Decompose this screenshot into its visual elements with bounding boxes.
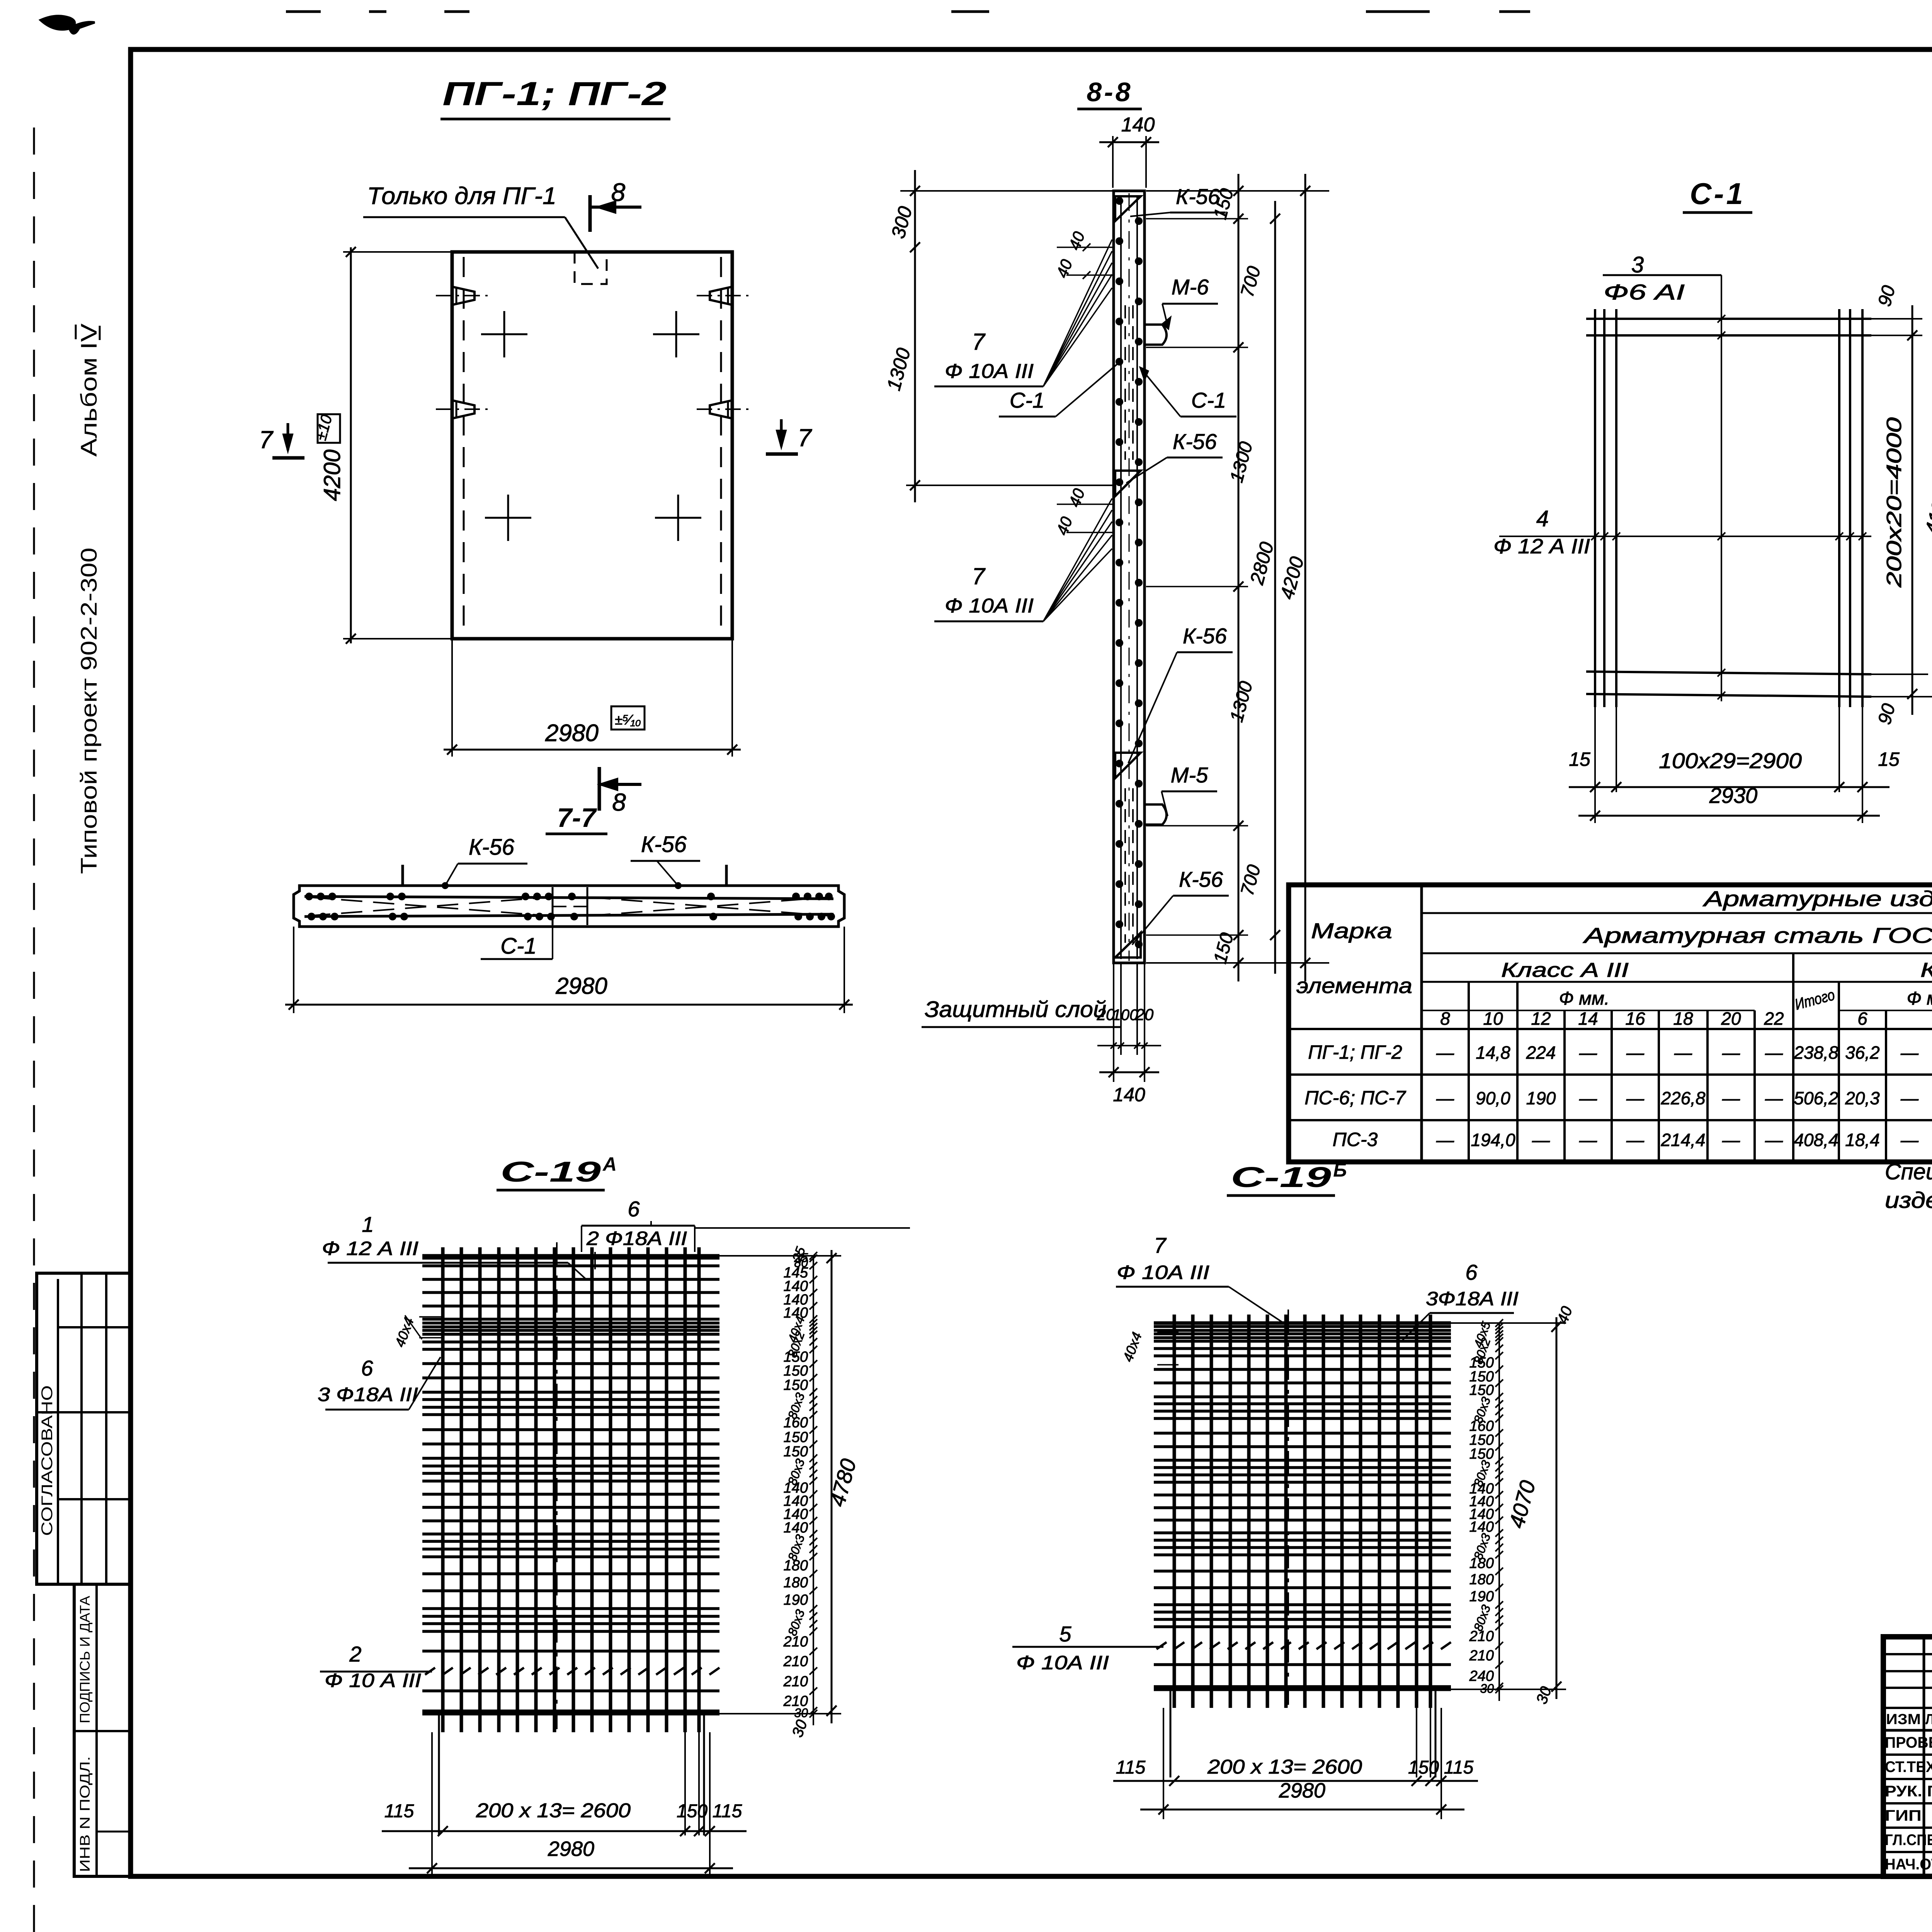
svg-text:К-56: К-56: [1179, 867, 1223, 891]
svg-text:Ф 10А III: Ф 10А III: [945, 360, 1034, 383]
8-8 embed М-6 hook: [1145, 325, 1167, 345]
svg-text:6: 6: [1465, 1260, 1478, 1284]
svg-text:210: 210: [1469, 1648, 1494, 1664]
8-8 embed dashed outline lower: [1124, 788, 1126, 943]
svg-text:Ф мм.: Ф мм.: [1559, 988, 1610, 1009]
svg-text:Ф мм,: Ф мм,: [1907, 988, 1932, 1009]
svg-text:6: 6: [628, 1197, 640, 1221]
7-7 middle cell lines: [552, 887, 554, 925]
svg-text:16: 16: [1625, 1009, 1645, 1029]
svg-text:210: 210: [783, 1673, 808, 1690]
section 7-7 panel strip: [294, 886, 844, 927]
svg-text:150: 150: [784, 1363, 808, 1379]
svg-text:1: 1: [362, 1212, 374, 1236]
stamp table СОГЛАСОВАНО: [37, 1273, 131, 1584]
svg-text:3Ф18А III: 3Ф18А III: [1426, 1288, 1519, 1310]
svg-text:А: А: [602, 1153, 617, 1175]
С-1 mesh right vertical bars: [1838, 309, 1840, 707]
svg-text:С-19: С-19: [500, 1156, 601, 1188]
svg-text:С-1: С-1: [500, 934, 536, 959]
svg-text:8: 8: [612, 788, 626, 816]
panel top notch (only for ПГ-1): [575, 252, 607, 284]
svg-text:—: —: [1626, 1043, 1645, 1063]
svg-text:ПГ-1; ПГ-2: ПГ-1; ПГ-2: [1308, 1041, 1402, 1063]
materials table body row lines: [1289, 1028, 1932, 1030]
mesh С-19А dimension ladder: [813, 1256, 814, 1725]
dim 300 left of 8-8: [900, 190, 1113, 192]
7-7 diagonal brace right bay: [589, 897, 829, 916]
svg-text:ГЛ.СПЕЦ.: ГЛ.СПЕЦ.: [1885, 1832, 1932, 1849]
svg-text:14: 14: [1578, 1009, 1598, 1029]
materials table марка элемента column: [1420, 885, 1423, 1162]
svg-text:СОГЛАСОВАНО: СОГЛАСОВАНО: [39, 1385, 56, 1536]
svg-text:—: —: [1900, 1088, 1919, 1108]
svg-text:5: 5: [1059, 1622, 1071, 1646]
svg-text:ПС-6; ПС-7: ПС-6; ПС-7: [1304, 1087, 1406, 1109]
8-8 dim 4200: [1304, 174, 1306, 981]
svg-text:100: 100: [1112, 1007, 1138, 1024]
svg-text:210: 210: [783, 1634, 808, 1650]
svg-text:22: 22: [1764, 1009, 1784, 1029]
svg-text:Защитный слой: Защитный слой: [925, 997, 1106, 1022]
title block signature rows: [1883, 1753, 1932, 1756]
svg-text:Альбом IV: Альбом IV: [77, 323, 102, 457]
svg-text:3 Ф18А III: 3 Ф18А III: [318, 1384, 418, 1405]
lifting loop top-left: [452, 287, 474, 305]
svg-text:ИЗМ: ИЗМ: [1886, 1711, 1921, 1728]
svg-text:—: —: [1579, 1043, 1597, 1063]
panel inner dashed edge left: [463, 257, 465, 634]
8-8 embed М-5 hook: [1145, 804, 1167, 825]
svg-text:15: 15: [1878, 748, 1900, 770]
section mark 8 top: [588, 195, 592, 232]
svg-text:—: —: [1436, 1088, 1454, 1108]
svg-text:18: 18: [1673, 1009, 1693, 1029]
svg-text:2: 2: [349, 1642, 361, 1666]
С-1 mesh top horizontal bars: [1586, 318, 1871, 320]
svg-text:194,0: 194,0: [1471, 1130, 1515, 1150]
svg-text:100х29=2900: 100х29=2900: [1659, 748, 1802, 773]
materials table header Арматурные изделия: [1422, 912, 1932, 914]
svg-text:238,8: 238,8: [1793, 1043, 1838, 1063]
svg-text:3: 3: [1631, 252, 1644, 277]
svg-text:—: —: [1722, 1043, 1740, 1063]
svg-text:—: —: [1436, 1130, 1454, 1150]
С-1 pos4 callout line horizontal: [1499, 536, 1871, 537]
dim 200x20=4000 right of С-1: [1912, 305, 1913, 715]
8-8 K-56 frame lower-middle: [1115, 753, 1141, 778]
svg-text:К-56: К-56: [1173, 429, 1217, 454]
svg-text:2 Ф18А III: 2 Ф18А III: [586, 1228, 687, 1249]
7-7 diagonal brace left bay: [309, 897, 549, 916]
svg-text:—: —: [1900, 1043, 1919, 1063]
svg-text:К-56: К-56: [1183, 624, 1227, 648]
svg-text:408,4: 408,4: [1794, 1130, 1838, 1150]
materials table frame: [1289, 885, 1932, 1162]
dim 2980 below panel: [451, 639, 453, 757]
svg-text:6: 6: [361, 1356, 373, 1380]
svg-text:36,2: 36,2: [1845, 1043, 1880, 1063]
svg-text:115: 115: [384, 1801, 414, 1821]
mesh С-19Б dimension ladder: [1498, 1323, 1500, 1701]
svg-text:Спецификация марок арматурных: Спецификация марок арматурных: [1885, 1159, 1932, 1184]
svg-text:±⁵⁄₁₀: ±⁵⁄₁₀: [615, 712, 641, 728]
mesh С-19А overall dim 4780: [831, 1250, 833, 1723]
dim 40 40 upper: [1057, 247, 1113, 248]
title block left columns: [1923, 1637, 1925, 1876]
8-8 dim 2800: [1274, 201, 1276, 974]
svg-text:18,4: 18,4: [1845, 1130, 1880, 1150]
svg-text:Класс А I: Класс А I: [1920, 959, 1932, 981]
svg-text:РУК. ГР.: РУК. ГР.: [1885, 1783, 1932, 1800]
svg-text:150: 150: [784, 1444, 808, 1460]
svg-text:—: —: [1722, 1130, 1740, 1150]
svg-text:200 х 13= 2600: 200 х 13= 2600: [1207, 1756, 1362, 1778]
svg-text:2930: 2930: [1709, 783, 1758, 808]
svg-text:С-1: С-1: [1191, 388, 1226, 412]
svg-text:506,2: 506,2: [1794, 1088, 1838, 1108]
svg-text:Ф6 АI: Ф6 АI: [1604, 280, 1685, 304]
svg-text:НАЧ.ОТД: НАЧ.ОТД: [1885, 1856, 1932, 1873]
cross mark lower-right: [655, 517, 701, 519]
svg-text:Ф 12 А III: Ф 12 А III: [1493, 535, 1590, 558]
svg-text:Ф 10 А III: Ф 10 А III: [325, 1670, 421, 1691]
svg-text:8: 8: [611, 178, 626, 206]
svg-text:2980: 2980: [1279, 1779, 1325, 1802]
svg-text:115: 115: [1444, 1757, 1474, 1778]
svg-text:—: —: [1579, 1088, 1597, 1108]
svg-text:—: —: [1900, 1130, 1919, 1150]
7-7 rebar dots: [305, 893, 313, 900]
svg-text:С-1: С-1: [1690, 177, 1745, 211]
8-8 centre dash line: [1129, 193, 1130, 961]
8-8 K-56 frame top: [1115, 196, 1141, 221]
mesh С-19А bottom box: [438, 1714, 440, 1835]
svg-text:СТ.ТЕХН.: СТ.ТЕХН.: [1885, 1759, 1932, 1776]
title block frame: [1883, 1637, 1932, 1876]
svg-text:—: —: [1436, 1043, 1454, 1063]
svg-text:Ф 10А III: Ф 10А III: [1016, 1652, 1109, 1673]
svg-text:180: 180: [784, 1575, 808, 1591]
svg-text:20,3: 20,3: [1845, 1088, 1880, 1108]
paper edge dashed left: [33, 128, 35, 1932]
svg-text:—: —: [1626, 1130, 1645, 1150]
mesh С-19Б horizontal bars: [1154, 1321, 1451, 1325]
svg-text:20: 20: [1721, 1009, 1741, 1029]
mesh С-19Б bottom box: [1170, 1689, 1172, 1777]
8-8 bottom cover dims: [1113, 963, 1114, 1082]
svg-text:200 х 13= 2600: 200 х 13= 2600: [476, 1799, 631, 1822]
8-8 inner rebar line left: [1120, 195, 1122, 959]
svg-text:ПС-3: ПС-3: [1333, 1129, 1378, 1150]
svg-text:С-1: С-1: [1010, 388, 1044, 412]
svg-text:180: 180: [784, 1558, 808, 1574]
svg-text:—: —: [1765, 1130, 1783, 1150]
svg-text:Арматурные изделия: Арматурные изделия: [1702, 886, 1932, 911]
svg-text:8-8: 8-8: [1087, 77, 1133, 107]
svg-text:ПГ-1; ПГ-2: ПГ-1; ПГ-2: [442, 75, 667, 112]
С-1 pos3 callout line vertical: [1721, 275, 1722, 701]
svg-text:М-5: М-5: [1171, 763, 1208, 787]
С-1 mesh left vertical bars: [1594, 309, 1596, 707]
svg-text:226,8: 226,8: [1660, 1088, 1706, 1108]
mesh С-19Б vertical bars: [1173, 1315, 1176, 1708]
mesh С-19Б centre dashed line: [1287, 1310, 1289, 1705]
svg-text:12: 12: [1531, 1009, 1551, 1029]
dim 1300 left of 8-8: [914, 270, 916, 502]
top edge dash marks: [286, 10, 321, 13]
svg-text:214,4: 214,4: [1660, 1130, 1705, 1150]
svg-text:2980: 2980: [545, 720, 599, 747]
title block top small rows: [1883, 1653, 1932, 1655]
registration mark top-left: [41, 16, 95, 33]
svg-text:15: 15: [1569, 748, 1590, 770]
С-1 mesh bottom horizontal bars: [1586, 672, 1871, 674]
lifting loop mid-left: [452, 400, 474, 418]
cross mark upper-right: [653, 333, 699, 335]
7-7 top rebar line: [304, 896, 833, 899]
svg-text:Типовой проект 902-2-300: Типовой проект 902-2-300: [77, 548, 102, 874]
svg-text:Марка: Марка: [1311, 918, 1392, 943]
stamp table ПОДПИСЬ И ДАТА / ИНВ N ПОДЛ: [74, 1584, 131, 1876]
svg-text:Класс А III: Класс А III: [1501, 959, 1629, 981]
section mark 7 right: [780, 419, 783, 446]
svg-text:190: 190: [1469, 1588, 1494, 1605]
8-8 inner rebar line right: [1136, 195, 1138, 959]
svg-text:150: 150: [1408, 1757, 1439, 1778]
svg-text:ПОДПИСЬ И ДАТА: ПОДПИСЬ И ДАТА: [77, 1596, 93, 1723]
svg-text:Б: Б: [1333, 1159, 1347, 1181]
svg-text:150: 150: [677, 1801, 707, 1821]
svg-text:2980: 2980: [548, 1837, 594, 1861]
svg-text:изделий на 1 панель: изделий на 1 панель: [1885, 1188, 1932, 1213]
svg-text:ПРОВЕР.: ПРОВЕР.: [1885, 1734, 1932, 1751]
svg-text:7: 7: [972, 563, 986, 589]
svg-text:ЛИСТ: ЛИСТ: [1925, 1711, 1932, 1728]
svg-text:160: 160: [784, 1415, 808, 1431]
svg-text:7-7: 7-7: [557, 803, 597, 833]
svg-text:10: 10: [1483, 1009, 1503, 1029]
svg-text:К-56: К-56: [469, 835, 515, 860]
dim 40 40 lower: [1057, 503, 1113, 505]
svg-text:—: —: [1765, 1088, 1783, 1108]
dim 2980 under 7-7: [293, 927, 294, 1013]
svg-text:115: 115: [1116, 1757, 1146, 1778]
svg-text:ГИП: ГИП: [1885, 1807, 1922, 1824]
svg-text:—: —: [1674, 1043, 1692, 1063]
svg-text:190: 190: [784, 1592, 808, 1608]
mesh С-19Б overall dim 4070: [1556, 1317, 1558, 1699]
svg-text:Ф 12 А III: Ф 12 А III: [322, 1238, 418, 1259]
svg-text:Ф 10А III: Ф 10А III: [945, 595, 1034, 617]
8-8 rebar dots: [1116, 197, 1123, 205]
panel inner dashed edge right: [720, 257, 722, 634]
svg-text:ИНВ N ПОДЛ.: ИНВ N ПОДЛ.: [77, 1756, 93, 1872]
svg-text:200х20=4000: 200х20=4000: [1883, 417, 1906, 588]
section 8-8 wall strip outline: [1114, 191, 1145, 963]
svg-text:К-56: К-56: [641, 832, 687, 857]
svg-text:М-6: М-6: [1172, 275, 1209, 299]
svg-text:—: —: [1626, 1088, 1645, 1108]
svg-text:2980: 2980: [555, 973, 607, 999]
svg-text:180: 180: [1469, 1555, 1494, 1571]
svg-text:180: 180: [1469, 1571, 1494, 1588]
8-8 K-56 frame upper-middle: [1115, 471, 1141, 496]
7-7 lifting pins: [401, 865, 404, 886]
svg-text:224: 224: [1526, 1043, 1556, 1063]
lifting loop top-right: [710, 287, 732, 305]
svg-text:150: 150: [784, 1377, 808, 1393]
tolerance box ±10: [318, 414, 340, 443]
svg-text:Только для ПГ-1: Только для ПГ-1: [367, 183, 556, 209]
svg-text:—: —: [1532, 1130, 1550, 1150]
cross mark upper-left: [481, 333, 527, 335]
svg-text:140: 140: [1113, 1084, 1145, 1105]
svg-text:7: 7: [798, 424, 812, 452]
dim 140 bottom of 8-8: [1099, 1071, 1159, 1073]
svg-text:8: 8: [1440, 1009, 1450, 1029]
svg-text:7: 7: [1154, 1233, 1167, 1257]
svg-text:210: 210: [783, 1653, 808, 1670]
svg-text:—: —: [1722, 1088, 1740, 1108]
dim 4200 left of panel: [343, 251, 452, 253]
svg-text:С-19: С-19: [1231, 1161, 1331, 1193]
svg-text:150: 150: [784, 1429, 808, 1446]
svg-text:—: —: [1765, 1043, 1783, 1063]
8-8 K-56 frame bottom: [1115, 933, 1141, 957]
mesh С-19А horizontal bars: [422, 1254, 719, 1258]
svg-text:7: 7: [972, 329, 986, 355]
svg-text:14,8: 14,8: [1476, 1043, 1510, 1063]
svg-text:элемента: элемента: [1296, 973, 1412, 998]
panel outline ПГ-1/ПГ-2: [452, 252, 732, 639]
svg-text:140: 140: [1121, 114, 1155, 136]
dim 15 / 100x29=2900 / 15 below С-1: [1594, 707, 1596, 823]
cross mark lower-left: [485, 517, 531, 519]
8-8 embed dashed outline upper: [1124, 305, 1126, 460]
svg-text:Арматурная сталь ГОСТ 57: Арматурная сталь ГОСТ 5781-75: [1583, 923, 1932, 947]
7-7 bottom rebar line: [304, 914, 833, 917]
materials table inner verticals: [1468, 982, 1470, 1162]
mesh С-19А centre dashed line: [556, 1242, 558, 1729]
svg-text:210: 210: [1469, 1628, 1494, 1645]
mesh С-19А vertical bars: [441, 1247, 445, 1732]
svg-text:4: 4: [1536, 506, 1549, 531]
svg-text:—: —: [1579, 1130, 1597, 1150]
lifting loop mid-right: [710, 400, 732, 418]
svg-text:7: 7: [259, 426, 274, 454]
svg-text:115: 115: [713, 1801, 742, 1821]
svg-text:190: 190: [1526, 1088, 1556, 1108]
tolerance box +5/-10 bottom: [611, 706, 645, 730]
svg-text:90,0: 90,0: [1476, 1088, 1510, 1108]
svg-text:4200: 4200: [319, 449, 345, 501]
8-8 right dim line 150/700/1300/1300/700/150: [1146, 190, 1329, 192]
svg-text:6: 6: [1857, 1009, 1867, 1029]
section mark 8 bottom: [598, 767, 601, 811]
svg-text:Ф 10А III: Ф 10А III: [1117, 1262, 1209, 1283]
